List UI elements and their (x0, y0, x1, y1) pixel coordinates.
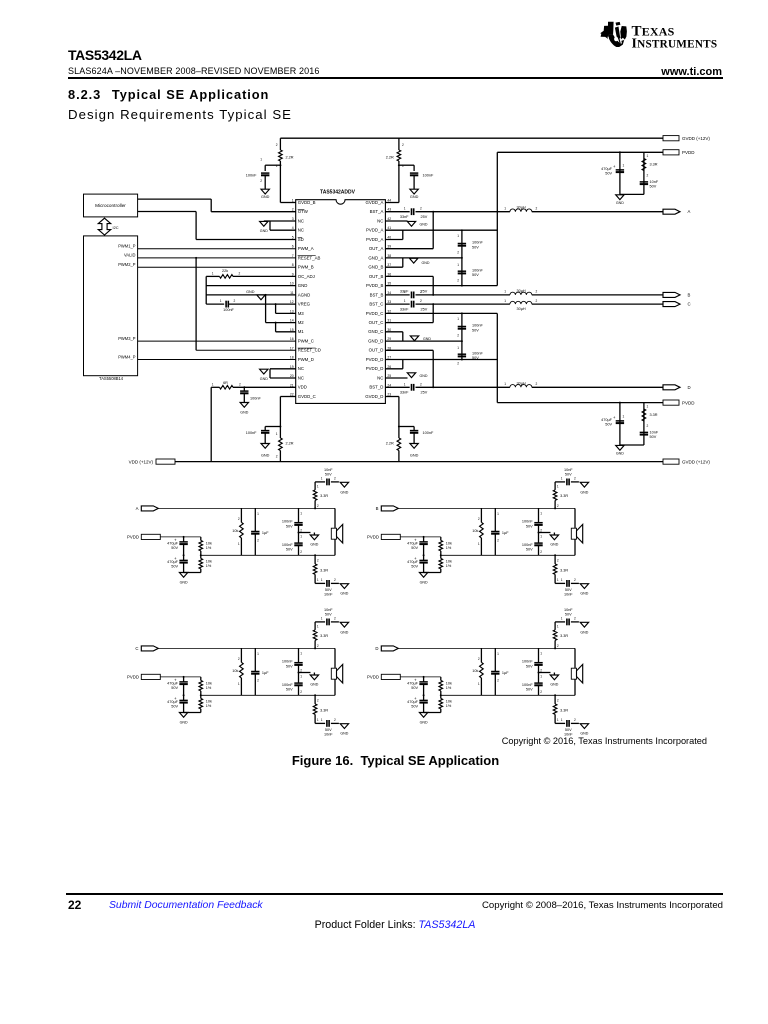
svg-text:25V: 25V (421, 215, 428, 219)
svg-text:2: 2 (238, 517, 240, 521)
svg-text:2: 2 (334, 718, 336, 722)
svg-text:50V: 50V (171, 565, 178, 569)
svg-text:C: C (135, 646, 138, 651)
svg-text:OUT_A: OUT_A (369, 246, 384, 251)
svg-text:GND: GND (580, 732, 588, 736)
svg-text:2.2R: 2.2R (386, 442, 394, 446)
svg-text:GVDD_A: GVDD_A (366, 200, 384, 205)
svg-text:1: 1 (321, 477, 323, 481)
svg-text:50V: 50V (411, 705, 418, 709)
svg-text:33nF: 33nF (400, 215, 409, 219)
svg-text:100nF: 100nF (282, 520, 293, 524)
svg-text:10k: 10k (206, 559, 212, 563)
svg-text:1: 1 (317, 718, 319, 722)
svg-text:1: 1 (457, 234, 459, 238)
svg-text:10nF: 10nF (324, 608, 333, 612)
svg-text:GVDD (+12V): GVDD (+12V) (682, 136, 710, 141)
svg-text:PVDD: PVDD (127, 535, 139, 540)
svg-text:OUT_B: OUT_B (369, 274, 384, 279)
svg-text:GVDD_B: GVDD_B (298, 200, 316, 205)
svg-text:1: 1 (300, 535, 302, 539)
svg-text:10nF: 10nF (324, 468, 333, 472)
svg-text:10k: 10k (472, 669, 478, 673)
svg-text:2: 2 (276, 455, 278, 459)
svg-text:PWM_B: PWM_B (298, 265, 314, 270)
svg-text:2: 2 (574, 718, 576, 722)
svg-text:10k: 10k (232, 669, 238, 673)
svg-text:1%: 1% (446, 704, 452, 708)
svg-text:100nF: 100nF (522, 683, 533, 687)
svg-text:GND_B: GND_B (368, 265, 383, 270)
svg-text:25V: 25V (421, 308, 428, 312)
svg-text:50V: 50V (171, 705, 178, 709)
svg-text:1: 1 (504, 207, 506, 211)
svg-text:100nF: 100nF (472, 351, 483, 355)
svg-text:GND: GND (260, 377, 268, 381)
svg-text:PWM2_P: PWM2_P (118, 262, 136, 267)
svg-text:1: 1 (317, 625, 319, 629)
svg-text:30µH: 30µH (517, 382, 526, 386)
svg-text:50V: 50V (286, 664, 293, 668)
svg-text:VDD (+12V): VDD (+12V) (129, 459, 154, 464)
svg-text:50V: 50V (411, 546, 418, 550)
svg-text:50V: 50V (650, 435, 657, 439)
svg-text:2: 2 (457, 334, 459, 338)
svg-text:GND: GND (340, 630, 348, 634)
svg-text:1: 1 (404, 207, 406, 211)
svg-text:3.3R: 3.3R (650, 413, 658, 417)
svg-text:GND: GND (340, 592, 348, 596)
svg-text:2: 2 (420, 382, 422, 386)
svg-text:50V: 50V (472, 328, 479, 332)
svg-text:1: 1 (212, 272, 214, 276)
svg-text:GND: GND (420, 222, 428, 226)
svg-text:1%: 1% (446, 546, 452, 550)
svg-text:1: 1 (321, 718, 323, 722)
svg-text:1: 1 (557, 485, 559, 489)
svg-text:2: 2 (536, 382, 538, 386)
svg-text:GVDD_C: GVDD_C (298, 394, 316, 399)
svg-text:1: 1 (497, 512, 499, 516)
svg-text:2: 2 (260, 179, 262, 183)
svg-text:GND: GND (340, 490, 348, 494)
svg-text:2: 2 (317, 699, 319, 703)
svg-text:1: 1 (457, 346, 459, 350)
svg-text:M1: M1 (298, 329, 305, 334)
svg-text:30µH: 30µH (517, 307, 526, 311)
svg-text:GND: GND (423, 337, 431, 341)
svg-text:2: 2 (457, 362, 459, 366)
svg-text:100nF: 100nF (472, 268, 483, 272)
svg-text:3.3R: 3.3R (320, 634, 328, 638)
svg-text:2: 2 (239, 383, 241, 387)
svg-text:470µF: 470µF (407, 542, 419, 546)
svg-text:470µF: 470µF (167, 542, 179, 546)
svg-text:1µF: 1µF (502, 671, 509, 675)
svg-text:B: B (688, 292, 691, 297)
svg-text:10k: 10k (446, 699, 452, 703)
svg-text:GND_C: GND_C (368, 329, 383, 334)
svg-text:2: 2 (647, 174, 649, 178)
svg-text:1: 1 (220, 299, 222, 303)
svg-text:1: 1 (540, 512, 542, 516)
svg-text:BST_B: BST_B (370, 292, 384, 297)
svg-text:1: 1 (276, 432, 278, 436)
svg-text:D: D (375, 646, 378, 651)
svg-text:50V: 50V (565, 473, 572, 477)
svg-text:VDD: VDD (298, 385, 307, 390)
svg-text:470µF: 470µF (167, 682, 179, 686)
svg-text:2: 2 (334, 617, 336, 621)
svg-text:3.3R: 3.3R (560, 634, 568, 638)
svg-text:GND: GND (261, 195, 270, 199)
svg-text:1: 1 (561, 718, 563, 722)
svg-text:SD: SD (298, 237, 304, 242)
svg-text:2: 2 (557, 504, 559, 508)
svg-text:2.2R: 2.2R (286, 155, 294, 159)
svg-text:RESET_AB: RESET_AB (298, 255, 321, 260)
svg-text:GND: GND (550, 543, 558, 547)
svg-text:2: 2 (478, 517, 480, 521)
svg-text:10nF: 10nF (564, 468, 573, 472)
svg-text:50V: 50V (411, 565, 418, 569)
svg-text:2: 2 (540, 690, 542, 694)
svg-text:100nF: 100nF (423, 174, 434, 178)
svg-text:1: 1 (478, 542, 480, 546)
svg-text:PVDD_A: PVDD_A (366, 237, 383, 242)
svg-text:100nF: 100nF (282, 660, 293, 664)
svg-text:10nF: 10nF (564, 593, 573, 597)
svg-text:NC: NC (298, 228, 304, 233)
svg-text:1: 1 (404, 290, 406, 294)
svg-text:470µF: 470µF (407, 560, 419, 564)
svg-text:NC: NC (377, 375, 383, 380)
svg-text:VALID: VALID (124, 253, 136, 258)
svg-text:2: 2 (574, 578, 576, 582)
svg-text:1: 1 (557, 625, 559, 629)
svg-text:PWM_C: PWM_C (298, 339, 314, 344)
svg-text:GND: GND (616, 452, 624, 456)
svg-text:16: 16 (290, 337, 294, 341)
svg-text:TAS5342ADDV: TAS5342ADDV (320, 189, 356, 195)
svg-text:50V: 50V (171, 686, 178, 690)
svg-text:2: 2 (536, 299, 538, 303)
svg-text:INSTRUMENTS: INSTRUMENTS (632, 36, 718, 51)
svg-text:1: 1 (557, 718, 559, 722)
svg-text:GND: GND (310, 543, 318, 547)
svg-text:2: 2 (317, 504, 319, 508)
svg-text:1: 1 (300, 675, 302, 679)
svg-text:GND: GND (420, 581, 428, 585)
svg-text:50V: 50V (605, 172, 612, 176)
svg-text:50V: 50V (526, 664, 533, 668)
svg-text:GND: GND (180, 721, 188, 725)
svg-text:GND: GND (550, 683, 558, 687)
svg-text:BST_D: BST_D (369, 385, 383, 390)
svg-text:2: 2 (497, 539, 499, 543)
svg-text:GND: GND (410, 195, 419, 199)
svg-text:1%: 1% (206, 564, 212, 568)
svg-text:I2C: I2C (113, 225, 119, 230)
svg-text:2: 2 (300, 690, 302, 694)
svg-text:10nF: 10nF (324, 733, 333, 737)
svg-text:1: 1 (300, 512, 302, 516)
svg-text:PVDD_D: PVDD_D (366, 357, 384, 362)
svg-text:1µF: 1µF (502, 531, 509, 535)
svg-text:10k: 10k (446, 681, 452, 685)
svg-text:GND: GND (260, 229, 268, 233)
svg-text:470µF: 470µF (601, 167, 613, 171)
svg-text:GVDD (+12V): GVDD (+12V) (682, 459, 710, 464)
svg-text:100nF: 100nF (522, 660, 533, 664)
svg-text:2: 2 (457, 279, 459, 283)
svg-text:1: 1 (321, 617, 323, 621)
svg-text:8: 8 (292, 263, 294, 267)
svg-text:50V: 50V (325, 588, 332, 592)
svg-text:GND: GND (261, 454, 270, 458)
svg-text:+: + (613, 415, 616, 420)
svg-text:GND: GND (310, 683, 318, 687)
svg-text:1: 1 (257, 652, 259, 656)
svg-text:1%: 1% (446, 686, 452, 690)
svg-text:1: 1 (647, 154, 649, 158)
svg-text:10k: 10k (206, 541, 212, 545)
svg-text:RESET_CD: RESET_CD (298, 348, 321, 353)
svg-text:GND: GND (180, 581, 188, 585)
svg-text:10k: 10k (206, 681, 212, 685)
svg-text:1µF: 1µF (262, 531, 269, 535)
svg-text:10k: 10k (232, 529, 238, 533)
svg-text:100nF: 100nF (282, 543, 293, 547)
svg-text:2: 2 (257, 539, 259, 543)
svg-text:100nF: 100nF (282, 683, 293, 687)
svg-text:PWM_D: PWM_D (298, 357, 314, 362)
svg-text:1: 1 (457, 317, 459, 321)
svg-text:100nF: 100nF (423, 431, 434, 435)
svg-text:50V: 50V (650, 185, 657, 189)
svg-text:3.3R: 3.3R (560, 494, 568, 498)
svg-text:100nF: 100nF (223, 308, 234, 312)
svg-text:1: 1 (317, 578, 319, 582)
svg-text:1: 1 (504, 382, 506, 386)
svg-text:PWM3_P: PWM3_P (118, 336, 136, 341)
svg-text:OUT_C: OUT_C (369, 320, 384, 325)
svg-text:2: 2 (574, 617, 576, 621)
svg-text:50V: 50V (286, 524, 293, 528)
svg-text:1µF: 1µF (262, 671, 269, 675)
svg-text:470µF: 470µF (407, 700, 419, 704)
svg-text:2: 2 (420, 207, 422, 211)
svg-text:1: 1 (238, 682, 240, 686)
svg-text:1: 1 (623, 164, 625, 168)
svg-text:100nF: 100nF (246, 174, 257, 178)
svg-text:GND_A: GND_A (368, 255, 383, 260)
svg-text:M3: M3 (298, 311, 305, 316)
svg-text:OUT_D: OUT_D (369, 348, 384, 353)
svg-text:50V: 50V (565, 728, 572, 732)
svg-text:30µH: 30µH (517, 289, 526, 293)
svg-text:A: A (136, 506, 139, 511)
svg-text:3.3R: 3.3R (320, 494, 328, 498)
svg-text:NC: NC (377, 218, 383, 223)
svg-text:33nF: 33nF (400, 391, 409, 395)
svg-text:3.3R: 3.3R (560, 568, 568, 572)
svg-text:GND: GND (580, 490, 588, 494)
svg-text:3.3R: 3.3R (560, 708, 568, 712)
svg-text:1: 1 (317, 485, 319, 489)
svg-text:TEXAS: TEXAS (632, 24, 675, 40)
svg-text:1: 1 (300, 652, 302, 656)
svg-text:NC: NC (298, 218, 304, 223)
svg-text:10nF: 10nF (650, 180, 659, 184)
svg-text:1: 1 (561, 578, 563, 582)
svg-text:470µF: 470µF (167, 560, 179, 564)
svg-text:TAS5508B14: TAS5508B14 (99, 376, 124, 381)
svg-text:2: 2 (497, 679, 499, 683)
svg-text:3.3R: 3.3R (320, 568, 328, 572)
svg-text:2: 2 (536, 290, 538, 294)
svg-text:25V: 25V (421, 391, 428, 395)
svg-text:PVDD: PVDD (127, 675, 139, 680)
svg-text:470µF: 470µF (407, 682, 419, 686)
svg-text:2: 2 (238, 657, 240, 661)
svg-text:1: 1 (504, 290, 506, 294)
svg-text:1: 1 (321, 578, 323, 582)
svg-text:2: 2 (300, 550, 302, 554)
svg-text:1: 1 (623, 415, 625, 419)
svg-text:10k: 10k (472, 529, 478, 533)
svg-text:PWM_A: PWM_A (298, 246, 314, 251)
svg-text:+: + (613, 164, 616, 169)
svg-text:50V: 50V (472, 273, 479, 277)
svg-text:GND: GND (420, 721, 428, 725)
svg-text:1: 1 (561, 477, 563, 481)
svg-text:GND: GND (240, 411, 248, 415)
svg-text:2: 2 (457, 251, 459, 255)
svg-text:18: 18 (290, 356, 294, 360)
svg-text:VREG: VREG (298, 302, 311, 307)
svg-text:PVDD_C: PVDD_C (366, 311, 384, 316)
svg-text:D: D (688, 385, 691, 390)
svg-text:M2: M2 (298, 320, 305, 325)
svg-text:2: 2 (420, 299, 422, 303)
svg-text:1: 1 (257, 512, 259, 516)
svg-text:1: 1 (540, 652, 542, 656)
svg-text:Microcontroller: Microcontroller (95, 203, 126, 208)
svg-text:10nF: 10nF (564, 608, 573, 612)
svg-text:1: 1 (457, 263, 459, 267)
svg-text:1: 1 (404, 299, 406, 303)
svg-text:2: 2 (257, 679, 259, 683)
svg-text:2: 2 (478, 657, 480, 661)
svg-text:BST_C: BST_C (369, 302, 383, 307)
svg-text:10k: 10k (446, 559, 452, 563)
svg-text:2: 2 (540, 550, 542, 554)
svg-text:100nF: 100nF (246, 431, 257, 435)
svg-text:3.3R: 3.3R (320, 708, 328, 712)
svg-text:1%: 1% (446, 564, 452, 568)
svg-text:PVDD_B: PVDD_B (366, 283, 383, 288)
svg-text:50V: 50V (605, 423, 612, 427)
svg-text:50V: 50V (472, 245, 479, 249)
svg-text:2: 2 (536, 207, 538, 211)
svg-text:PWM4_P: PWM4_P (118, 354, 136, 359)
svg-text:AGND: AGND (298, 292, 311, 297)
svg-text:C: C (688, 302, 691, 307)
svg-text:1: 1 (497, 652, 499, 656)
svg-text:50V: 50V (325, 473, 332, 477)
svg-text:OTW: OTW (298, 209, 309, 214)
svg-text:2.2R: 2.2R (386, 155, 394, 159)
svg-text:50V: 50V (565, 588, 572, 592)
svg-text:10nF: 10nF (564, 733, 573, 737)
svg-text:PVDD: PVDD (367, 675, 379, 680)
svg-text:2: 2 (334, 578, 336, 582)
svg-text:2: 2 (234, 299, 236, 303)
svg-text:2: 2 (574, 477, 576, 481)
svg-text:6: 6 (292, 245, 294, 249)
svg-text:10k: 10k (206, 699, 212, 703)
svg-text:1: 1 (504, 299, 506, 303)
svg-text:100nF: 100nF (472, 241, 483, 245)
svg-text:100nF: 100nF (472, 324, 483, 328)
svg-text:GND: GND (298, 283, 308, 288)
svg-text:GND: GND (340, 732, 348, 736)
svg-text:GND: GND (410, 454, 419, 458)
svg-text:50V: 50V (325, 613, 332, 617)
svg-text:NC: NC (298, 375, 304, 380)
svg-text:2: 2 (557, 559, 559, 563)
svg-text:50V: 50V (325, 728, 332, 732)
svg-text:6R: 6R (223, 381, 228, 385)
svg-text:2: 2 (317, 559, 319, 563)
svg-text:100nF: 100nF (522, 520, 533, 524)
svg-text:1: 1 (478, 682, 480, 686)
svg-text:3.3R: 3.3R (650, 163, 658, 167)
svg-text:PVDD_A: PVDD_A (366, 228, 383, 233)
svg-text:2.2R: 2.2R (286, 442, 294, 446)
svg-text:2: 2 (239, 272, 241, 276)
svg-text:100nF: 100nF (250, 397, 261, 401)
svg-text:50V: 50V (565, 613, 572, 617)
svg-text:PVDD: PVDD (367, 535, 379, 540)
svg-text:NC: NC (298, 366, 304, 371)
svg-text:470µF: 470µF (601, 418, 613, 422)
svg-text:PVDD_D: PVDD_D (366, 366, 384, 371)
svg-text:GND: GND (580, 630, 588, 634)
svg-text:PVDD: PVDD (682, 400, 695, 405)
svg-text:GND: GND (420, 374, 428, 378)
svg-text:17: 17 (290, 346, 294, 350)
svg-text:1: 1 (540, 535, 542, 539)
svg-text:50V: 50V (411, 686, 418, 690)
svg-text:10nF: 10nF (650, 431, 659, 435)
svg-text:PWM1_P: PWM1_P (118, 244, 136, 249)
svg-text:7: 7 (292, 254, 294, 258)
svg-text:50V: 50V (286, 548, 293, 552)
svg-text:1: 1 (238, 542, 240, 546)
svg-text:GVDD_D: GVDD_D (365, 394, 383, 399)
svg-text:GND: GND (616, 201, 624, 205)
svg-text:50V: 50V (526, 688, 533, 692)
svg-text:2: 2 (317, 644, 319, 648)
svg-text:1: 1 (557, 578, 559, 582)
svg-text:50V: 50V (526, 548, 533, 552)
svg-text:10nF: 10nF (324, 593, 333, 597)
svg-text:1: 1 (260, 158, 262, 162)
svg-text:30µH: 30µH (517, 205, 526, 209)
svg-text:2: 2 (276, 143, 278, 147)
